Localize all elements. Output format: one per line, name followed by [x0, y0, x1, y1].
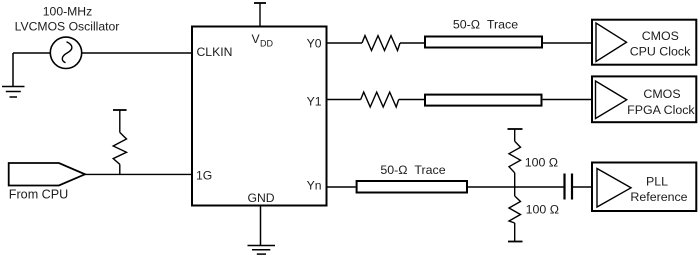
ground (left of oscillator)	[2, 53, 25, 97]
svg-text:CMOS: CMOS	[643, 87, 680, 101]
ground (below GND pin)	[248, 207, 276, 255]
series resistor on Y1	[361, 92, 399, 107]
wire: Y0 to series resistor	[327, 42, 362, 44]
100-ohm pull-down resistor (Yn)	[508, 187, 523, 242]
svg-text:DD: DD	[260, 39, 273, 49]
svg-text:PLL: PLL	[646, 175, 668, 189]
wire: capacitor to PLL buffer	[573, 186, 597, 188]
oscillator X1 (circle with sine)	[50, 37, 81, 68]
wire: trace to CMOS FPGA buffer	[543, 99, 596, 101]
wire: resistor to 50-ohm trace (Y1)	[399, 99, 424, 101]
wire: trace to CMOS CPU buffer	[543, 42, 596, 44]
svg-text:100 Ω: 100 Ω	[525, 156, 558, 170]
series resistor on Y0	[362, 36, 400, 51]
wire: oscillator to CLKIN	[82, 52, 192, 54]
wire: resistor to 50-ohm trace (Y0)	[400, 42, 424, 44]
svg-text:Y1: Y1	[307, 95, 322, 109]
wire: Y1 to series resistor	[327, 99, 361, 101]
pull-up resistor on 1G (vertical)	[113, 110, 127, 174]
svg-text:50-Ω Trace: 50-Ω Trace	[453, 18, 518, 32]
svg-text:GND: GND	[248, 191, 275, 205]
100-ohm pull-up resistor (Yn)	[508, 129, 523, 187]
CMOS CPU Clock receiver box	[592, 20, 696, 65]
label: 100-MHz LVCMOS Oscillator	[15, 5, 120, 34]
wire: trace to capacitor	[468, 186, 564, 188]
svg-text:From CPU: From CPU	[9, 187, 68, 201]
PLL Reference receiver box	[592, 163, 696, 212]
svg-text:Y0: Y0	[307, 36, 322, 50]
VDD supply bar	[254, 3, 266, 26]
IC U1 body	[192, 27, 327, 206]
From CPU arrow tag	[9, 163, 85, 186]
50-ohm trace rectangle (Yn)	[357, 181, 467, 193]
svg-text:FPGA Clock: FPGA Clock	[627, 103, 695, 117]
wire: Yn to 50-ohm trace	[327, 186, 356, 188]
svg-text:100-MHz: 100-MHz	[43, 5, 92, 19]
wire: From CPU to 1G	[85, 173, 192, 175]
svg-text:LVCMOS Oscillator: LVCMOS Oscillator	[15, 19, 120, 33]
wire: ground to oscillator	[13, 52, 51, 54]
svg-text:CMOS: CMOS	[642, 29, 679, 43]
pin label VDD	[252, 32, 274, 49]
svg-text:50-Ω Trace: 50-Ω Trace	[380, 163, 445, 177]
capacitor (series, Yn)	[565, 174, 573, 200]
svg-text:Reference: Reference	[630, 190, 687, 204]
CMOS FPGA Clock receiver box	[592, 76, 696, 122]
50-ohm trace rectangle (Y1)	[425, 95, 542, 106]
50-ohm trace rectangle (Y0)	[425, 37, 542, 48]
svg-text:Yn: Yn	[307, 178, 322, 192]
svg-text:CPU Clock: CPU Clock	[630, 45, 691, 59]
svg-text:1G: 1G	[196, 168, 212, 182]
svg-text:100 Ω: 100 Ω	[526, 203, 559, 217]
svg-text:CLKIN: CLKIN	[197, 45, 233, 59]
